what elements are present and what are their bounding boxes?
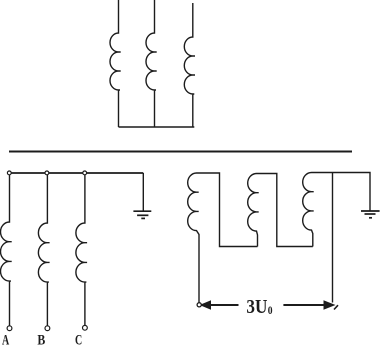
separator line between upper and lower figure (9, 151, 352, 153)
winding phase C (lower right of left group) with leads (76, 175, 87, 326)
wire: secondary bus from node A to ground corner (9, 172, 143, 174)
winding phase B (lower middle) with leads (38, 175, 49, 326)
dimension arrow right (points right to terminal) (283, 300, 338, 310)
ground symbol (right section) (361, 211, 380, 218)
wire: top star-point rail joining the three primary coils (119, 126, 195, 128)
svg-text:A: A (2, 333, 9, 349)
primary winding phase 3 (top right coil with leads) (184, 3, 195, 127)
terminal circle B (45, 326, 50, 331)
node B junction circle on bus (45, 171, 49, 175)
svg-text:3U: 3U (246, 296, 267, 318)
winding phase A (lower left) with leads (0, 175, 11, 326)
label 3U0 (246, 296, 272, 318)
dimension arrow left (points left to terminal) (197, 300, 238, 310)
wire: ground drop from bus (142, 173, 144, 211)
open-delta winding b (lower right group, middle coil) (248, 174, 259, 247)
svg-text:C: C (75, 333, 82, 349)
node C junction circle on bus (83, 171, 87, 175)
primary winding phase 1 (top left coil with leads) (110, 0, 121, 127)
node A junction circle on bus (7, 171, 11, 175)
wire: right measurement terminal drop (332, 173, 334, 303)
ground symbol (left section) (133, 211, 151, 218)
svg-text:0: 0 (268, 303, 273, 317)
terminal circle A (7, 326, 12, 331)
open-delta winding c (lower right group, right coil) (303, 173, 314, 247)
primary winding phase 2 (top middle coil with leads) (146, 0, 157, 127)
wire: top link from winding c to ground drop (312, 173, 371, 211)
open-delta winding a (lower right group, left coil) with lead down to left terminal (188, 173, 199, 303)
terminal circle C (83, 325, 88, 330)
wire: top link from winding b to second down conductor (257, 174, 313, 247)
svg-text:B: B (37, 333, 45, 349)
wire: top link from winding a to first down conductor (197, 173, 258, 247)
